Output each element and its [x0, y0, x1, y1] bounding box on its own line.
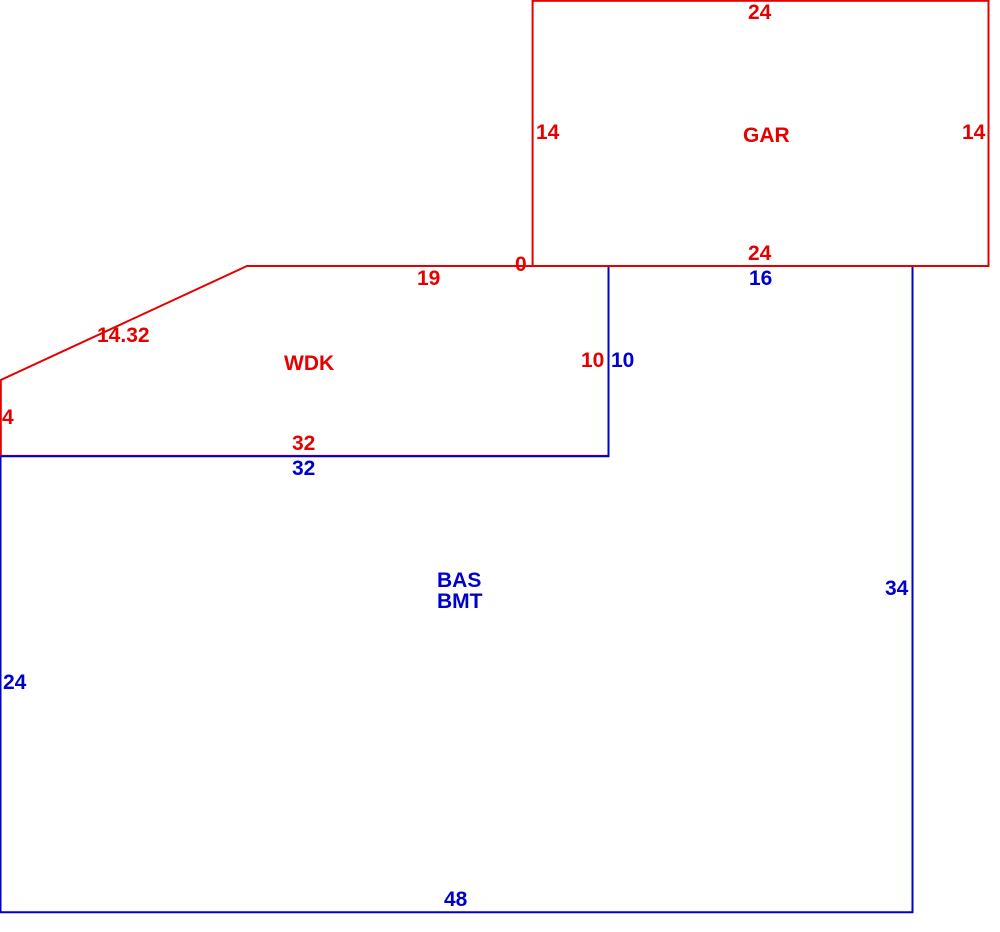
dimension label 34 (BMT right) [885, 578, 908, 599]
dimension label 32 red (WDK bottom) [292, 433, 315, 454]
dimension label 14.32 (WDK diagonal) [97, 325, 150, 346]
basement BAS BMT outline [1, 266, 913, 912]
garage GAR outline [533, 1, 989, 266]
dimension label 10 red (WDK right) [581, 350, 604, 371]
dimension label 0 (junction) [515, 254, 527, 275]
wood deck WDK outline [1, 266, 609, 456]
dimension label 4 (WDK left) [2, 407, 14, 428]
dimension label 48 (BMT bottom) [444, 889, 467, 910]
dimension label 10 blue (BMT left upper) [611, 350, 634, 371]
dimension label 16 (BMT top) [749, 268, 772, 289]
dimension label 19 (WDK top) [417, 268, 440, 289]
room label GAR [743, 125, 790, 146]
room label WDK [284, 353, 334, 374]
room label BAS BMT line1 [437, 570, 481, 591]
dimension label 32 blue (BMT upper) [292, 458, 315, 479]
dimension label 14 (GAR right) [962, 122, 985, 143]
dimension label 24 (GAR top) [748, 2, 771, 23]
dimension label 14 (GAR left) [536, 122, 559, 143]
room label BAS BMT line2 [437, 591, 483, 612]
dimension label 24 (BMT left) [3, 672, 26, 693]
dimension label 24 (GAR bottom) [748, 243, 771, 264]
